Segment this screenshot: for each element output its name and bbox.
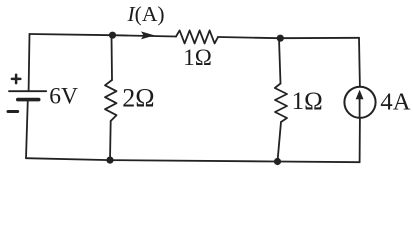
wire 1 ohm vertical branch lower xyxy=(278,122,282,162)
resistor 2 ohm (vertical) xyxy=(105,80,117,121)
wire bottom left segment xyxy=(26,158,110,160)
wire top middle-left segment xyxy=(112,35,177,36)
svg-text:1Ω: 1Ω xyxy=(292,88,323,115)
resistor 1 ohm (horizontal, top) xyxy=(176,30,218,43)
battery polarity minus xyxy=(8,110,18,113)
junction node bottom-left xyxy=(106,157,113,164)
svg-text:1Ω: 1Ω xyxy=(183,45,212,70)
junction node bottom-right xyxy=(274,158,281,165)
wire top-right segment xyxy=(279,37,359,39)
wire left lower (from battery) xyxy=(26,100,28,158)
wire top-left segment xyxy=(30,34,112,35)
battery 6V negative plate xyxy=(18,98,39,102)
wire right upper (to current source) xyxy=(358,38,361,87)
current direction arrowhead I(A) xyxy=(141,31,155,39)
svg-text:I(A): I(A) xyxy=(127,2,165,26)
wire 2 ohm branch lower xyxy=(109,121,112,160)
battery polarity plus xyxy=(12,75,20,83)
svg-text:6V: 6V xyxy=(49,84,78,110)
junction node top-left xyxy=(109,32,116,39)
wire 2 ohm branch upper xyxy=(111,35,114,80)
wire bottom middle segment xyxy=(110,160,278,161)
current source arrow shaft xyxy=(359,98,361,117)
current source arrowhead xyxy=(356,90,364,99)
current source 4A circle xyxy=(344,87,375,118)
wire 1 ohm vertical branch upper xyxy=(279,38,281,83)
svg-text:2Ω: 2Ω xyxy=(122,84,154,113)
wire left upper (to battery) xyxy=(28,34,31,91)
wire top middle-right segment xyxy=(218,37,279,38)
svg-text:4A: 4A xyxy=(380,89,410,116)
junction node top-right xyxy=(277,35,284,42)
wire bottom right segment xyxy=(278,161,360,164)
battery 6V positive plate xyxy=(9,90,46,92)
wire right lower (from current source) xyxy=(359,118,361,162)
resistor 1 ohm (vertical) xyxy=(275,84,287,123)
